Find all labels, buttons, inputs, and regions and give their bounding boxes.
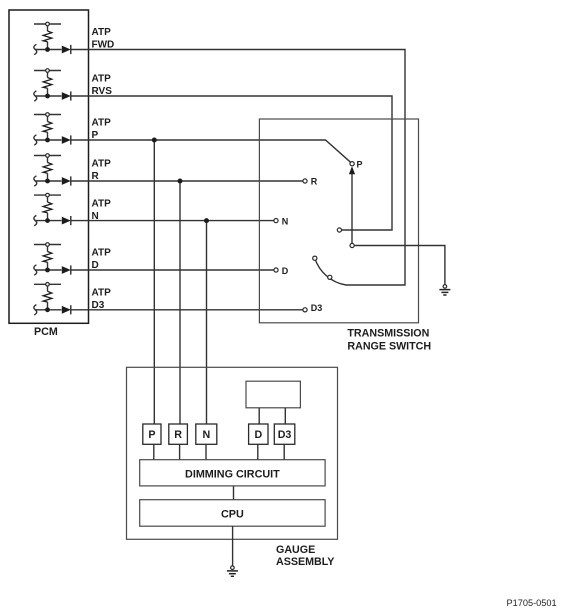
svg-text:DIMMING CIRCUIT: DIMMING CIRCUIT: [185, 468, 280, 480]
svg-text:R: R: [311, 176, 318, 186]
svg-text:ATP: ATP: [92, 118, 112, 129]
svg-text:ATP: ATP: [92, 159, 112, 170]
svg-text:D: D: [254, 429, 262, 441]
svg-text:N: N: [202, 429, 210, 441]
svg-text:ASSEMBLY: ASSEMBLY: [276, 556, 334, 568]
svg-text:N: N: [282, 216, 289, 226]
svg-text:ATP: ATP: [92, 198, 112, 209]
svg-text:ATP: ATP: [92, 74, 112, 85]
svg-text:ATP: ATP: [92, 27, 112, 38]
svg-text:R: R: [174, 429, 182, 441]
svg-text:CPU: CPU: [221, 509, 244, 521]
svg-text:RANGE SWITCH: RANGE SWITCH: [347, 340, 431, 352]
svg-text:TRANSMISSION: TRANSMISSION: [347, 327, 429, 339]
svg-text:P: P: [357, 159, 363, 169]
svg-text:ATP: ATP: [92, 248, 112, 259]
svg-text:D: D: [282, 266, 289, 276]
svg-text:D3: D3: [311, 303, 323, 313]
svg-text:D3: D3: [278, 429, 292, 441]
svg-text:GAUGE: GAUGE: [276, 544, 315, 556]
svg-text:P: P: [148, 429, 155, 441]
svg-text:ATP: ATP: [92, 288, 112, 299]
svg-text:PCM: PCM: [34, 326, 58, 338]
svg-text:P1705-0501: P1705-0501: [507, 598, 557, 608]
